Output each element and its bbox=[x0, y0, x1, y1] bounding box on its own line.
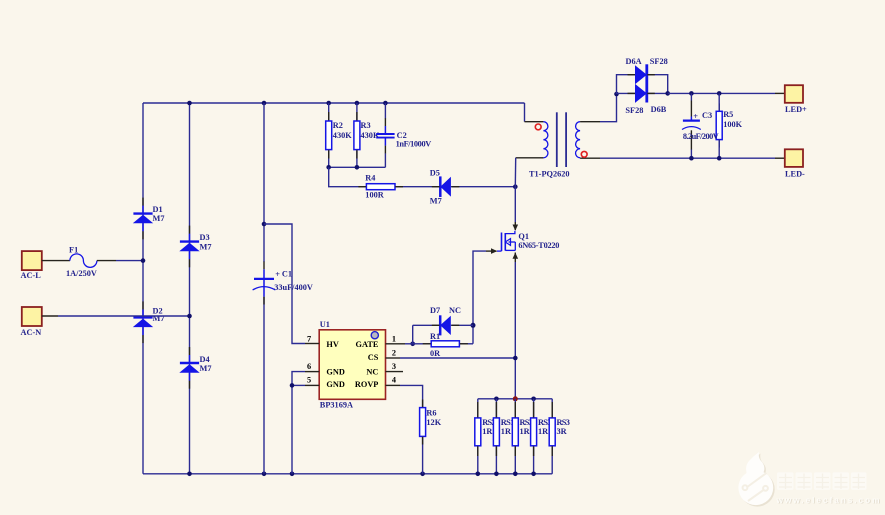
pin stubs R6 and sense resistors bbox=[423, 400, 553, 457]
svg-text:R4: R4 bbox=[365, 173, 375, 182]
svg-text:D7: D7 bbox=[430, 306, 440, 315]
capacitor C2 bbox=[376, 103, 431, 167]
wire R4 to D5 bbox=[395, 186, 440, 188]
pin stubs C3 R5 bbox=[691, 101, 719, 150]
svg-text:R1: R1 bbox=[430, 332, 440, 341]
node gate pin junction bbox=[410, 342, 415, 347]
svg-text:3: 3 bbox=[392, 362, 396, 371]
pin 5 GND bbox=[305, 376, 319, 386]
svg-text:1R: 1R bbox=[482, 427, 493, 436]
resistor R6 bbox=[420, 408, 442, 474]
diode D6B bbox=[617, 84, 668, 115]
svg-text:1nF/1000V: 1nF/1000V bbox=[396, 140, 432, 149]
svg-text:GATE: GATE bbox=[355, 340, 378, 349]
svg-text:D4: D4 bbox=[200, 355, 210, 364]
wire ROVP to R6 bbox=[400, 385, 423, 407]
node D6 output junction bbox=[665, 91, 670, 96]
resistor RS3 c bbox=[549, 399, 570, 474]
svg-text:0R: 0R bbox=[430, 349, 441, 358]
watermark logo elecfans bbox=[738, 452, 880, 507]
svg-text:100K: 100K bbox=[723, 120, 742, 129]
svg-text:U1: U1 bbox=[320, 320, 330, 329]
wire GND pins branch bbox=[290, 372, 305, 474]
svg-text:1R: 1R bbox=[501, 427, 512, 436]
svg-text:D6A: D6A bbox=[626, 57, 642, 66]
svg-text:M7: M7 bbox=[200, 364, 212, 373]
pin 2 CS bbox=[386, 348, 401, 358]
transistor Q1 bbox=[497, 231, 559, 251]
svg-text:1R: 1R bbox=[538, 427, 549, 436]
diode D4 bbox=[179, 355, 211, 381]
pin stubs D6A D6B bbox=[628, 75, 655, 94]
port AC-N bbox=[21, 307, 42, 337]
svg-text:LED+: LED+ bbox=[785, 105, 807, 114]
node D7 right junction bbox=[471, 323, 476, 328]
node red CS sense junction bbox=[513, 396, 518, 401]
port LED+ bbox=[785, 85, 807, 114]
resistor R2 bbox=[326, 103, 353, 167]
pin stubs bridge diodes D1-D4 bbox=[143, 198, 190, 389]
svg-text:C1: C1 bbox=[282, 269, 292, 278]
svg-text:BP3169A: BP3169A bbox=[320, 401, 353, 410]
wire HV branch bbox=[264, 224, 305, 344]
wire bottom ground rail bbox=[143, 473, 552, 475]
source pin arrow bbox=[513, 253, 519, 263]
svg-text:C3: C3 bbox=[702, 111, 712, 120]
svg-text:M7: M7 bbox=[200, 243, 212, 252]
wire top DC+ rail bbox=[143, 102, 525, 104]
svg-text:33uF/400V: 33uF/400V bbox=[274, 283, 313, 292]
diode D3 bbox=[179, 233, 211, 259]
capacitor C3 bbox=[682, 91, 719, 160]
node secondary top junction bbox=[614, 92, 619, 97]
resistor RS3 a bbox=[512, 399, 533, 474]
pin 7 HV bbox=[305, 334, 319, 343]
svg-text:D1: D1 bbox=[153, 205, 163, 214]
pin 3 NC bbox=[386, 362, 404, 372]
diode D2 bbox=[133, 306, 165, 335]
node C1 top junction bbox=[262, 222, 267, 227]
pin stubs D7 R1 bbox=[423, 325, 468, 344]
wire LED- rail bbox=[600, 157, 775, 159]
svg-text:HV: HV bbox=[326, 340, 338, 349]
wire R2R3C2 bottom link bbox=[329, 166, 386, 168]
svg-text:D5: D5 bbox=[430, 169, 440, 178]
fuse F1 bbox=[66, 245, 97, 278]
svg-text:4: 4 bbox=[392, 376, 396, 385]
port LED- bbox=[785, 149, 805, 178]
resistor R5 bbox=[716, 91, 742, 160]
pin 4 ROVP bbox=[386, 376, 401, 386]
svg-text:+: + bbox=[693, 112, 698, 121]
capacitor C1 bbox=[253, 269, 313, 297]
pin stubs R2 R3 C2 C1 bbox=[264, 112, 385, 305]
svg-text:NC: NC bbox=[366, 367, 378, 376]
svg-text:SF28: SF28 bbox=[650, 57, 668, 66]
resistor R1 bbox=[413, 332, 473, 358]
wire gate drive bbox=[473, 251, 486, 344]
transformer polarity dot secondary bbox=[581, 151, 587, 157]
resistor RS1 bbox=[493, 399, 514, 474]
resistor R3 bbox=[354, 103, 380, 167]
svg-text:R2: R2 bbox=[333, 121, 343, 130]
svg-text:1: 1 bbox=[392, 334, 396, 343]
wire D7 left leg bbox=[412, 325, 414, 344]
svg-text:3R: 3R bbox=[557, 427, 568, 436]
svg-text:430K: 430K bbox=[333, 131, 352, 140]
transformer polarity dot primary bbox=[535, 124, 541, 130]
svg-text:7: 7 bbox=[307, 334, 311, 343]
svg-text:6N65-T0220: 6N65-T0220 bbox=[518, 241, 559, 250]
IC U1 BP3169A bbox=[319, 320, 385, 409]
svg-text:R5: R5 bbox=[723, 110, 733, 119]
resistor RS2 bbox=[475, 399, 496, 474]
transformer core bbox=[557, 112, 566, 167]
svg-text:SF28: SF28 bbox=[625, 106, 643, 115]
svg-text:12K: 12K bbox=[426, 418, 441, 427]
svg-text:1R: 1R bbox=[520, 427, 531, 436]
svg-text:8.2uF/200V: 8.2uF/200V bbox=[683, 132, 719, 141]
node bottom rail junctions bbox=[187, 472, 425, 477]
svg-text:GND: GND bbox=[326, 367, 344, 376]
resistor R4 bbox=[365, 173, 395, 199]
pin stubs R4 D5 bbox=[358, 186, 459, 188]
svg-text:1A/250V: 1A/250V bbox=[66, 269, 97, 278]
svg-text:F1: F1 bbox=[69, 245, 78, 254]
transformer T1 primary bbox=[515, 103, 548, 187]
svg-text:RS3: RS3 bbox=[557, 418, 570, 427]
svg-text:2: 2 bbox=[392, 348, 396, 357]
svg-text:T1-PQ2620: T1-PQ2620 bbox=[529, 170, 570, 179]
svg-text:M7: M7 bbox=[430, 197, 442, 206]
wire sense top rail bbox=[478, 398, 552, 400]
diode D7 bbox=[413, 306, 473, 336]
diode D5 bbox=[430, 169, 451, 206]
resistor RS3 b bbox=[531, 399, 552, 474]
svg-text:D3: D3 bbox=[200, 233, 210, 242]
wire second bridge rail bbox=[189, 103, 191, 474]
diode D6 shared cathode bar bbox=[645, 64, 648, 102]
svg-text:6: 6 bbox=[307, 362, 311, 371]
node sense bottom junctions bbox=[476, 472, 536, 477]
node drain junction bbox=[513, 184, 518, 189]
wire LED+ rail bbox=[668, 92, 775, 94]
svg-text:100R: 100R bbox=[365, 190, 384, 199]
node CS junction bbox=[513, 356, 518, 361]
svg-text:NC: NC bbox=[449, 306, 461, 315]
diode D6A bbox=[617, 57, 668, 94]
pin 6 GND bbox=[305, 362, 319, 372]
wire drain vertical bbox=[514, 187, 516, 222]
wire fuse to bridge bbox=[97, 260, 116, 262]
wire CS net bbox=[400, 357, 515, 359]
svg-text:CS: CS bbox=[368, 353, 379, 362]
transformer T1 secondary bbox=[576, 94, 617, 158]
svg-text:5: 5 bbox=[307, 376, 311, 385]
wire C1 branch bbox=[263, 103, 265, 474]
svg-text:R3: R3 bbox=[361, 121, 371, 130]
svg-text:ROVP: ROVP bbox=[355, 380, 379, 389]
wire down to R4 bbox=[329, 167, 367, 186]
wire AC-L to fuse bbox=[42, 260, 70, 262]
diode D1 bbox=[133, 205, 165, 232]
node top rail junctions bbox=[187, 101, 388, 106]
svg-text:LED-: LED- bbox=[785, 170, 805, 179]
pin 1 GATE bbox=[386, 334, 413, 344]
svg-text:D6B: D6B bbox=[651, 105, 667, 114]
port AC-L bbox=[21, 251, 42, 280]
drain pin arrow bbox=[513, 222, 519, 231]
svg-text:R6: R6 bbox=[426, 408, 436, 417]
svg-text:GND: GND bbox=[326, 380, 344, 389]
svg-text:M7: M7 bbox=[153, 214, 165, 223]
svg-text:AC-L: AC-L bbox=[21, 271, 42, 280]
node AC-L junction bbox=[141, 258, 146, 263]
wire D5 to drain node bbox=[451, 186, 515, 188]
svg-text:+: + bbox=[275, 270, 280, 279]
gate pin arrow bbox=[486, 248, 497, 254]
svg-text:Q1: Q1 bbox=[518, 232, 529, 241]
wire AC-N to bridge bbox=[42, 315, 58, 317]
node AC-N junction bbox=[187, 314, 192, 319]
wire left bridge rail bbox=[142, 103, 144, 474]
svg-text:AC-N: AC-N bbox=[21, 328, 42, 337]
wire source vertical bbox=[514, 262, 516, 399]
